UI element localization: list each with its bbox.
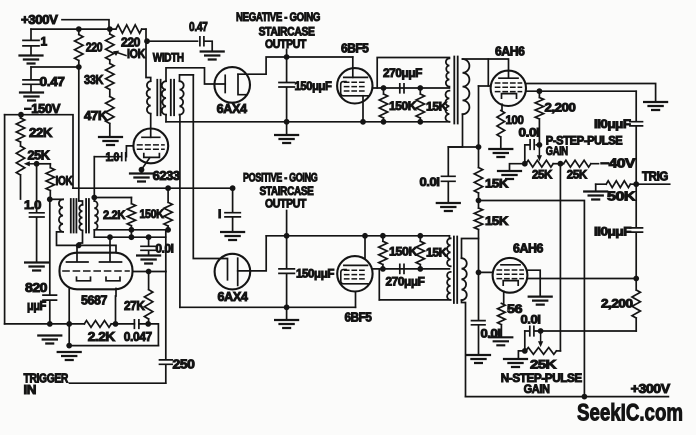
wire 6BF5a grid entry (352, 57, 354, 77)
resistor 150K (osc grid) (164, 188, 172, 230)
tube 5687 grid dashes (63, 270, 129, 272)
junction 270uuF-b right (417, 266, 423, 272)
svg-text:6AX4: 6AX4 (218, 290, 248, 304)
svg-text:15K: 15K (426, 100, 448, 114)
junction bypass-1 top (230, 185, 236, 191)
junction 150K bottom (165, 227, 171, 233)
svg-text:6233: 6233 (153, 169, 180, 183)
wire T4 primary top lead (448, 236, 450, 239)
tube 6AX4b plate (237, 258, 239, 285)
svg-text:GAIN: GAIN (546, 144, 568, 158)
svg-text:150μμF: 150μμF (295, 79, 332, 93)
svg-text:6AX4: 6AX4 (217, 102, 247, 116)
ground below 47K (99, 137, 122, 145)
tube 6233 plate lead (150, 114, 152, 138)
junction 820/ground bus (47, 321, 53, 327)
capacitor 270uuF (lower) (400, 264, 404, 273)
junction 6BF5a cathode/rail (360, 119, 366, 125)
resistor 15K (divider bottom) (474, 208, 482, 230)
junction plate node lower (633, 276, 639, 282)
junction 150uuF-b top (284, 233, 290, 239)
tube 6AX4a envelope (214, 67, 250, 103)
capacitor 110uuF (lower) (630, 184, 643, 278)
junction plate/T1 feedback (76, 243, 82, 249)
potentiometer 25K (N-gain) (526, 348, 557, 355)
wire 1.0 to secondary (94, 156, 121, 158)
wire cathode return y=345 (69, 345, 158, 347)
wire lower loop bottom (379, 299, 450, 301)
transformer T3 primary lower half (445, 91, 449, 122)
resistor 15K (lower) (416, 236, 424, 269)
svg-text:22K: 22K (29, 126, 52, 140)
ground mid rail (upper) (275, 135, 298, 143)
wire P-pot left (510, 164, 526, 171)
junction cathode-left (66, 321, 72, 327)
tube 5687 left plate lead (76, 245, 78, 261)
tube 5687 envelope (60, 253, 133, 290)
svg-text:1: 1 (41, 35, 48, 49)
tube 6AH6a grid dashes (496, 83, 522, 92)
ground N-pot (504, 359, 527, 367)
junction divider mid (476, 198, 482, 204)
svg-text:150K: 150K (389, 245, 418, 259)
wire x=560 riser (559, 164, 561, 351)
wire N-gain bus (541, 330, 637, 332)
svg-text:2.2K: 2.2K (103, 208, 126, 222)
junction 10K/T1 primary (47, 196, 53, 202)
junction 27K bottom (145, 321, 151, 327)
junction pot right node (558, 161, 564, 167)
svg-text:TRIG: TRIG (642, 170, 668, 184)
svg-text:150K: 150K (140, 207, 165, 221)
wire B+ to T2 (145, 29, 147, 41)
wire 6BF5b grid entry (364, 236, 366, 258)
wire pot join (553, 163, 563, 165)
wire 6AX4b plate out (238, 236, 267, 271)
svg-text:0.047: 0.047 (124, 330, 152, 344)
svg-text:6BF5: 6BF5 (341, 42, 369, 56)
transformer T4 core (454, 237, 457, 304)
svg-text:II0μμF: II0μμF (594, 117, 631, 131)
wire divider riser x=478 (478, 86, 480, 272)
junction 270uuF right (417, 85, 423, 91)
capacitor 0.01 (upper) (442, 147, 456, 203)
wire 6AH6b cathode lead (503, 291, 505, 303)
junction 270uuF left (381, 85, 387, 91)
wire 6BF5a cathode lead (362, 96, 364, 122)
wire 6AH6a grid stub (479, 85, 491, 87)
transformer T1 core (71, 199, 89, 233)
transformer T2 primary winding (147, 81, 151, 114)
junction neg staircase node (284, 54, 290, 60)
wire T2 right top to x=193 drop (180, 75, 194, 81)
svg-text:0.0I: 0.0I (156, 242, 174, 256)
svg-text:IN: IN (24, 383, 37, 397)
wire 6AH6a cathode lead (501, 104, 503, 110)
svg-text:820: 820 (25, 281, 48, 295)
junction N-gain wiper node (538, 328, 544, 334)
wire T1 middle bottom lead (79, 230, 83, 245)
svg-text:0.0I: 0.0I (519, 126, 540, 140)
capacitor 150uuF (upper) (279, 57, 294, 122)
tube 6233 cathode lead (142, 157, 151, 169)
wire +300V rail y=29 (31, 28, 146, 30)
svg-text:POSITIVE - GOING: POSITIVE - GOING (243, 171, 318, 185)
resistor 150K (lower) (379, 236, 387, 269)
wire 6AH6a plate out (526, 84, 656, 102)
svg-text:2.2K: 2.2K (88, 330, 115, 344)
transformer T2 middle winding (162, 81, 166, 115)
capacitor 110uuF (upper) (630, 91, 643, 184)
wire pos output stub (286, 211, 288, 236)
ground below 0.01 trigger (137, 256, 160, 264)
capacitor 250 (trigger input) (160, 360, 173, 383)
tube 6AH6b top bar (501, 264, 520, 266)
ground below 820 (38, 336, 61, 344)
transformer T3 core (454, 57, 457, 124)
transformer T1 primary winding (59, 199, 63, 232)
wire 6BF5b plate out (373, 268, 450, 270)
svg-text:6BF5: 6BF5 (345, 311, 372, 325)
junction 6BF5b grid tap (362, 233, 368, 239)
svg-text:SeekIC.com: SeekIC.com (577, 400, 683, 427)
junction 15K-b top (417, 233, 423, 239)
svg-text:15K: 15K (426, 246, 448, 260)
svg-text:25K: 25K (532, 168, 553, 182)
capacitor 0.01 (N-gain) (525, 326, 541, 336)
tube 6BF5b top bar (344, 264, 368, 266)
junction 150uuF/gnd-rail (284, 119, 290, 125)
capacitor 1 (B+ bypass) (23, 29, 39, 54)
ground P-pot left (498, 171, 521, 179)
wire B+ to T1 middle winding (79, 67, 83, 205)
ground 6AH6b screen (529, 297, 552, 305)
wire right cathode riser (115, 289, 118, 324)
wire wiper to 10K-b (37, 163, 51, 165)
resistor 50K (596, 181, 637, 188)
junction secondary/wiper-line (91, 195, 97, 201)
svg-text:25K: 25K (567, 168, 588, 182)
ground below 0.47 (20, 93, 43, 101)
junction 270uuF-b left (380, 266, 386, 272)
wire N-pot left ground (518, 351, 525, 359)
junction right plate tap (107, 234, 113, 240)
svg-text:I: I (218, 207, 221, 221)
junction 2.2K bottom (129, 227, 135, 233)
transformer T4 secondary (462, 258, 467, 300)
ground below cathode return (58, 352, 81, 360)
junction return-left (66, 343, 72, 349)
svg-text:25K: 25K (28, 149, 50, 163)
svg-text:150μμF: 150μμF (296, 267, 334, 281)
resistor 15K (divider top) (474, 168, 482, 194)
ground 6233 cathode (130, 174, 153, 182)
wire grid2 bus y=271 (133, 271, 167, 273)
wire T2 middle top to 6AX4a (166, 68, 225, 84)
junction TRIG node (633, 181, 639, 187)
capacitor 270uuF (upper) (400, 84, 404, 93)
wire 6AH6a screen out (526, 90, 636, 92)
potentiometer 10K (width bias) (106, 29, 114, 60)
wire 6AX4a plate out (238, 57, 353, 74)
wire x=193 drop to 6AX4b (193, 75, 220, 259)
ground 56 cathode (489, 337, 512, 345)
junction 2.2Kbox link (129, 234, 135, 240)
ground 0.01 upper (437, 203, 460, 211)
ground below cap 1 (20, 56, 43, 64)
resistor 47K (106, 97, 114, 137)
wire trigger-couple bus y=237 (94, 236, 166, 238)
tube 6AH6a cathode cup (502, 94, 517, 99)
junction 150K-b top (380, 233, 386, 239)
ground pos rail (275, 320, 298, 328)
tube 6BF5b cathode cup (341, 270, 368, 284)
svg-text:NEGATIVE - GOING: NEGATIVE - GOING (236, 10, 320, 24)
resistor 150K (upper) (379, 88, 387, 122)
wire T1 secondary top lead (93, 198, 95, 202)
junction P-gain wiper node (537, 142, 543, 148)
wire 6AH6b screen out (527, 270, 540, 296)
svg-text:33K: 33K (84, 73, 103, 87)
wire -150V far-left drop (4, 115, 6, 324)
capacitor 0.01 (lower grid) (472, 272, 486, 354)
wire 10K to T1 primary (50, 198, 63, 200)
tube 6AX4a plate (238, 74, 246, 95)
tube 5687 left plate bar (67, 261, 89, 263)
svg-text:27K: 27K (124, 299, 145, 313)
capacitor 1.0 (6233 grid) (122, 153, 126, 161)
tube 6AH6b cathode cup (503, 281, 518, 286)
tube 6233 cathode cup (144, 154, 160, 158)
junction 0.47top tap (144, 38, 150, 44)
capacitor 1 (-150V bypass) (225, 188, 240, 231)
svg-text:+300V: +300V (631, 382, 671, 396)
capacitor 0.47 (top) (147, 37, 212, 51)
wire 6BF5a plate out (372, 87, 449, 89)
wire neg output stub (286, 50, 288, 58)
wire 6BF5a plate to T3 top (377, 58, 449, 89)
wire gnd stem (upper rail) (286, 122, 288, 135)
svg-text:270μμF: 270μμF (386, 275, 425, 289)
resistor 2200 (lower) (632, 279, 640, 332)
wire T2 middle bottom to gnd-rail (165, 115, 167, 122)
svg-text:WIDTH: WIDTH (153, 51, 184, 65)
svg-text:220: 220 (86, 41, 103, 55)
svg-text:50K: 50K (607, 190, 635, 204)
wire pos gnd rail y=307 (180, 306, 356, 308)
tube 6BF5a cathode cup (341, 82, 368, 96)
capacitor 150uuF (lower) (279, 236, 294, 307)
junction 150K bottom (upper) (381, 119, 387, 125)
junction +300V rail (582, 394, 588, 400)
resistor 2.2K (cathode) (84, 321, 111, 328)
resistor 25K (to -40V) (564, 160, 599, 167)
wire T4 secondary top lead (462, 239, 479, 259)
svg-text:47K: 47K (84, 109, 107, 123)
transformer T4 primary lower half (447, 272, 451, 300)
junction 2200 top (537, 88, 543, 94)
capacitor 0.01 (trigger) (141, 237, 156, 255)
svg-text:250: 250 (173, 358, 196, 372)
junction 25K wiper node (34, 161, 40, 167)
svg-text:1.0: 1.0 (24, 198, 42, 212)
svg-text:μμF: μμF (27, 299, 47, 313)
transformer T3 primary upper half (446, 58, 450, 86)
tube 6AX4b cathode (220, 259, 227, 280)
wire T3 secondary top to 6AH6a (463, 59, 509, 71)
svg-text:15K: 15K (485, 177, 509, 191)
resistor 22K (16, 115, 24, 142)
junction 6233 cathode (139, 167, 145, 173)
tube 5687 right cathode (106, 277, 120, 281)
capacitor 1.0 (wiper bypass) (30, 164, 45, 262)
wire T4 secondary bottom to +300V (462, 300, 466, 397)
transformer T1 secondary winding (94, 201, 98, 230)
svg-text:+300V: +300V (21, 13, 59, 27)
junction 150K top (left) (165, 185, 171, 191)
transformer T3 secondary (463, 59, 470, 114)
transformer T2 core A (157, 80, 160, 115)
wire 6233 grid lead (126, 146, 133, 157)
wire trig riser x=166 (165, 230, 167, 360)
svg-text:II0μμF: II0μμF (594, 225, 631, 239)
tube 6233 grid dashes (138, 145, 165, 149)
wire 6BF5b cathode lead (355, 291, 357, 307)
wire grid-cap riser x=94 (93, 157, 95, 198)
svg-text:−40V: −40V (600, 157, 636, 171)
transformer T4 primary upper half (447, 238, 451, 266)
wire 2.2K top (94, 197, 131, 199)
tube 6233 plate bar (142, 136, 160, 138)
wire 50K left (595, 184, 597, 191)
wire pos rail y=236 (266, 235, 449, 237)
wire -150V rail (5, 115, 73, 189)
ground below 1.0 (25, 263, 48, 271)
tube 6BF5b grid dashes (345, 270, 368, 279)
svg-text:0.47: 0.47 (189, 20, 208, 34)
junction divider top (476, 144, 482, 150)
wire grid drop x=488 (487, 59, 489, 86)
capacitor 820uuF (43, 199, 57, 324)
capacitor 0.047 (134, 320, 139, 328)
svg-text:0.0I: 0.0I (420, 175, 440, 189)
junction 27K top (146, 269, 152, 275)
svg-text:OUTPUT: OUTPUT (265, 197, 307, 211)
potentiometer 25K (P-gain) (526, 160, 553, 167)
resistor 27K (144, 272, 152, 324)
wire TRIG out (636, 183, 670, 185)
wire T2 right bottom drop x=180 (179, 115, 181, 308)
ground 100 cathode (489, 149, 512, 157)
junction +300V/R220a (76, 26, 82, 32)
wire T1 primary bottom lead (57, 232, 79, 246)
wiper arrow 10K (116, 52, 127, 56)
resistor 100 (497, 111, 505, 149)
resistor 2200 (upper) (535, 91, 543, 145)
ground plate-line (top right) (644, 102, 667, 110)
wiper arrow N-gain (540, 331, 542, 342)
wire 0.47 bypass tap (31, 66, 79, 68)
tube 6BF5a grid dashes (345, 82, 368, 91)
wire +300V bottom rail (466, 396, 669, 398)
junction pos-gnd (284, 304, 290, 310)
resistor 56 (498, 303, 506, 336)
ground 50K left (584, 192, 607, 200)
transformer T2 core B (171, 80, 174, 115)
wire pos gnd stem (286, 307, 288, 320)
junction lower grid node (476, 270, 482, 276)
svg-text:2,200: 2,200 (601, 296, 633, 310)
tube 5687 left cathode (77, 277, 91, 281)
junction 220/0.47 (76, 64, 82, 70)
resistor 15K (upper) (416, 88, 424, 122)
junction 0.01 tap (146, 234, 152, 240)
ground bypass-1 (221, 232, 244, 240)
resistor 10K (trigger) (46, 164, 54, 200)
wiper arrow 25K (28, 163, 37, 165)
svg-text:IOK: IOK (127, 47, 145, 61)
junction N-pot left (522, 348, 528, 354)
tube 6AH6a envelope (491, 71, 526, 106)
wire T2 primary top lead (146, 41, 151, 81)
wire 6AH6b plate out (527, 278, 636, 280)
wire feedback node y=245 (79, 245, 116, 252)
svg-text:GAIN: GAIN (524, 382, 550, 396)
svg-text:IOK: IOK (56, 174, 73, 188)
resistor 2.2K (osc) (127, 198, 135, 230)
junction cathode-right (113, 321, 119, 327)
capacitor 0.01 (P-gain) (525, 140, 540, 164)
svg-text:150K: 150K (389, 99, 417, 113)
wire cathode bus y=324 (69, 324, 158, 346)
wire left cathode riser (68, 289, 70, 346)
potentiometer 25K (trigger level) (16, 142, 24, 199)
junction -150V/22K (18, 112, 24, 118)
wire divider mid to +300 drop (479, 201, 585, 397)
tube 6233 envelope (133, 129, 168, 164)
junction 15K bottom (upper) (417, 119, 423, 125)
wire lower loop riser (378, 269, 380, 300)
transformer T1 middle winding (79, 205, 82, 231)
tube 5687 right plate lead (109, 237, 111, 261)
tube 6BF5b envelope (337, 256, 372, 291)
tube 6AH6b grid dashes (497, 270, 523, 279)
svg-text:15K: 15K (485, 214, 509, 228)
wire 15K-divider top (448, 146, 478, 148)
svg-text:0.47: 0.47 (40, 75, 65, 89)
wire -150V to cathode bus (5, 323, 70, 325)
resistor 220 (vertical) (75, 29, 83, 67)
wire T3 secondary bottom lead (448, 114, 462, 147)
wiper arrow P-gain (538, 145, 540, 156)
resistor 33K (106, 60, 114, 97)
resistor 220 (horizontal) (116, 25, 142, 33)
wire +300V feed (62, 20, 109, 29)
svg-text:6AH6: 6AH6 (495, 45, 525, 59)
wire osc bottom bus (94, 229, 166, 231)
capacitor 0.47 (left) (23, 67, 40, 92)
transformer T2 right winding (180, 81, 184, 115)
tube 6AX4b envelope (215, 254, 251, 290)
ground 0.47 top (201, 52, 224, 60)
wire -150V rail y=188 (73, 187, 233, 189)
wire T1 secondary bottom lead (93, 230, 95, 237)
svg-text:2,200: 2,200 (545, 101, 577, 115)
wire TRIGGER IN (70, 382, 166, 384)
tube 6AH6a top bar (499, 71, 518, 78)
tube 6BF5a envelope (337, 68, 372, 103)
tube 5687 right plate bar (100, 261, 122, 263)
